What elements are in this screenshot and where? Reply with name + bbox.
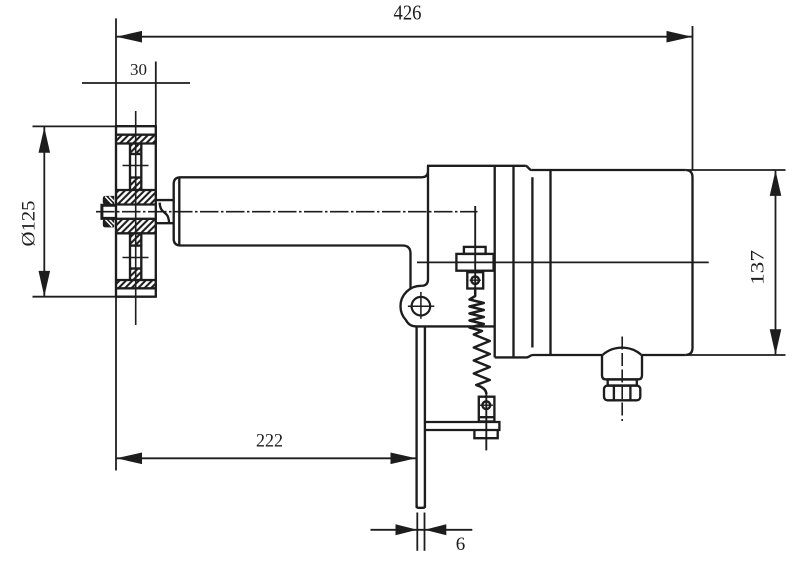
- shaft shoulder top line: [156, 199, 173, 201]
- motor axis line: [417, 261, 709, 263]
- flange rear line: [512, 166, 514, 358]
- pulley left face: [115, 126, 117, 297]
- adjuster pin cross tick: [470, 279, 481, 281]
- pulley top edge: [115, 125, 157, 127]
- pulley bottom edge: [115, 296, 157, 298]
- terminal centerline (dash-dot): [621, 337, 623, 422]
- pulley web left edge bottom: [129, 233, 131, 280]
- flange front line: [494, 166, 496, 358]
- pulley hub hatch top: [116, 190, 156, 205]
- pulley hub hatch bottom: [116, 219, 156, 234]
- pulley rim inner line top-2: [116, 142, 156, 144]
- anchor block: [479, 397, 495, 422]
- pulley web right edge bottom: [140, 233, 142, 280]
- svg-text:137: 137: [749, 250, 769, 285]
- pulley web right edge top: [140, 144, 142, 191]
- pulley web hatch bottom-lower: [130, 269, 141, 281]
- terminal dome: [603, 348, 642, 355]
- shaft locknut block lower: [103, 219, 114, 228]
- motor top edge: [532, 169, 686, 171]
- gearbox top edge: [427, 165, 525, 167]
- anchor pin cross tick: [480, 404, 494, 406]
- terminal collar: [608, 379, 637, 385]
- flange-to-motor chamfer bottom: [527, 355, 534, 357]
- svg-text:426: 426: [394, 1, 422, 25]
- motor bottom edge (right of terminal): [642, 354, 685, 356]
- extension line bottom of dim D125: [33, 296, 117, 298]
- shaft locknut block upper: [103, 196, 114, 205]
- extension line left (pulley left face plane, serves dims 426 / 30 / 222): [115, 18, 117, 470]
- anchor pin circle: [482, 401, 490, 409]
- dimension line 137: [775, 171, 777, 355]
- dimension line 426: [116, 36, 693, 38]
- web hole centerline tick (upper): [123, 165, 149, 167]
- flange-to-motor chamfer top: [525, 166, 532, 170]
- pulley right face: [155, 126, 157, 297]
- web hole centerline tick (lower): [123, 257, 149, 259]
- adjuster pin circle: [471, 276, 479, 284]
- extension line top of dim D125: [33, 125, 117, 127]
- pulley web hole bottom edge (upper hole): [130, 176, 141, 178]
- bracket left face with fillet from snout bottom: [403, 246, 411, 290]
- pulley web hatch bottom-upper: [130, 233, 141, 245]
- extension line bottom of dim 137: [688, 354, 786, 356]
- pulley web hole bottom edge (lower hole): [130, 267, 141, 269]
- extension line right of dim 426 (motor right face plane): [692, 26, 694, 170]
- motor can seam line: [549, 170, 551, 355]
- pulley rim inner line bottom-1: [116, 287, 156, 289]
- arrowhead 137 bottom: [770, 329, 782, 355]
- pulley web left edge top: [129, 144, 131, 191]
- shaft stub end (left of pulley): [102, 205, 116, 218]
- pulley vertical centerline: [135, 111, 137, 325]
- extension line right of dim 6: [424, 513, 426, 551]
- pivot crosshair horizontal: [408, 305, 434, 307]
- arrowhead D125 bottom: [39, 271, 51, 297]
- adjuster stud centerline: [474, 206, 476, 296]
- lever arm right edge: [424, 326, 426, 507]
- pulley rim hatch bottom: [116, 280, 156, 288]
- pivot crosshair vertical: [420, 292, 422, 319]
- arrowhead D125 top: [39, 127, 51, 153]
- motor right face with rounded corners: [685, 170, 692, 355]
- svg-text:222: 222: [256, 431, 283, 452]
- adjuster square guide: [467, 272, 483, 288]
- adjuster block: [456, 254, 493, 271]
- lever arm bottom cap: [417, 505, 425, 508]
- anchor nut under bar: [474, 430, 497, 438]
- gearbox front face with fillet to snout top and to pivot boss: [421, 166, 428, 286]
- pulley hub top line: [116, 189, 156, 191]
- extension line right of dim 30 (pulley right face plane): [155, 62, 157, 127]
- shaft shoulder bottom line: [156, 222, 173, 224]
- terminal body: [602, 355, 642, 379]
- adjuster locknut (top): [464, 247, 486, 254]
- svg-text:30: 30: [130, 60, 147, 79]
- pulley rim inner line bottom-2: [116, 279, 156, 281]
- pulley web hole top edge (lower hole): [130, 244, 141, 246]
- dimension line 222: [116, 457, 416, 459]
- dimension line 30: [82, 82, 190, 84]
- pivot boss outline: [401, 286, 495, 327]
- anchor block inner line: [479, 416, 495, 418]
- arrowhead 222 left: [117, 453, 143, 465]
- pivot pin circle: [412, 297, 431, 316]
- arrowhead 426 left: [117, 31, 143, 43]
- dimension line 6: [371, 529, 473, 531]
- lever bracket bar: [425, 422, 500, 430]
- snout left inner face line: [178, 178, 180, 246]
- arrowhead 426 right: [667, 31, 693, 43]
- arrowhead 6 left: [396, 524, 418, 535]
- snout outline: [174, 177, 422, 245]
- motor bottom edge (left of terminal): [533, 354, 602, 356]
- arrowhead 6 right: [425, 524, 447, 535]
- arrowhead 222 right: [391, 453, 417, 465]
- extension line left of dim 6: [416, 513, 418, 551]
- shaft centerline (dash-dot): [96, 211, 478, 213]
- pulley web hatch top-lower: [130, 178, 141, 191]
- flange bottom edge: [495, 356, 527, 358]
- terminal nut: [604, 386, 640, 401]
- terminal nut facet line right: [629, 386, 631, 401]
- dimension line D125: [43, 127, 45, 297]
- pulley web hole top edge (upper hole): [130, 153, 141, 155]
- extension line top of dim 137: [688, 169, 786, 171]
- anchor stud centerline: [485, 394, 487, 451]
- shaft break curve: [160, 203, 170, 223]
- pulley web hatch top-upper: [130, 144, 141, 155]
- terminal nut facet line left: [613, 386, 615, 401]
- pulley bore top line: [116, 203, 156, 205]
- svg-text:6: 6: [456, 534, 466, 555]
- pulley hub bottom line: [116, 232, 156, 234]
- arrowhead 137 top: [770, 170, 782, 196]
- pulley bore bottom line: [116, 218, 156, 220]
- lever arm left edge: [415, 326, 417, 507]
- svg-text:Ø125: Ø125: [20, 201, 40, 247]
- motor front seam line (short): [531, 177, 533, 347]
- pulley rim hatch top: [116, 135, 156, 144]
- pulley rim inner line top-1: [116, 134, 156, 136]
